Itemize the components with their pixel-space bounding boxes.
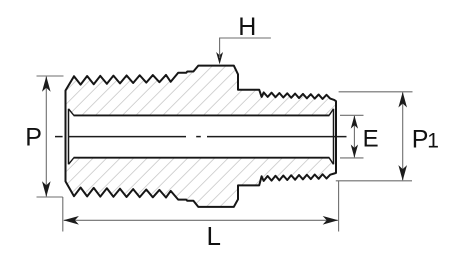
right counterbore edge (333, 109, 335, 165)
right bore chamfer top (329, 109, 333, 116)
dimension L extension line left (62, 197, 64, 232)
dimension P1 extension line top (339, 91, 413, 93)
dimension E arrow line (353, 116, 355, 157)
left bore chamfer bottom (69, 158, 74, 165)
left bore chamfer top (69, 109, 74, 116)
section hatching (0, 55, 460, 215)
dimension P extension line top (37, 75, 64, 77)
svg-text:H: H (238, 13, 256, 41)
svg-text:L: L (207, 221, 221, 251)
body outline stroke with threads (66, 66, 337, 207)
svg-text:P: P (412, 125, 429, 153)
bore bottom line (74, 157, 330, 159)
dimension H leader line (220, 38, 271, 57)
fitting body cross-section outline (66, 66, 337, 207)
bore top line (74, 114, 330, 116)
left counterbore edge (68, 109, 70, 165)
center line (55, 136, 347, 138)
dimension L extension line right (338, 181, 340, 232)
dimension P arrow line (45, 77, 47, 197)
dimension L arrow line (64, 219, 338, 221)
dimension P1 arrow line (402, 92, 404, 180)
dimension H arrow (216, 52, 223, 64)
dimension E extension line top (340, 114, 364, 116)
svg-text:1: 1 (427, 129, 439, 152)
bore (hole) white area (66, 109, 336, 164)
svg-text:E: E (363, 126, 379, 153)
dimension P extension line bottom (37, 196, 63, 198)
dimension E extension line bottom (340, 157, 364, 159)
svg-text:P: P (25, 123, 42, 151)
dimension P1 extension line bottom (336, 180, 412, 182)
right bore chamfer bottom (329, 158, 333, 165)
